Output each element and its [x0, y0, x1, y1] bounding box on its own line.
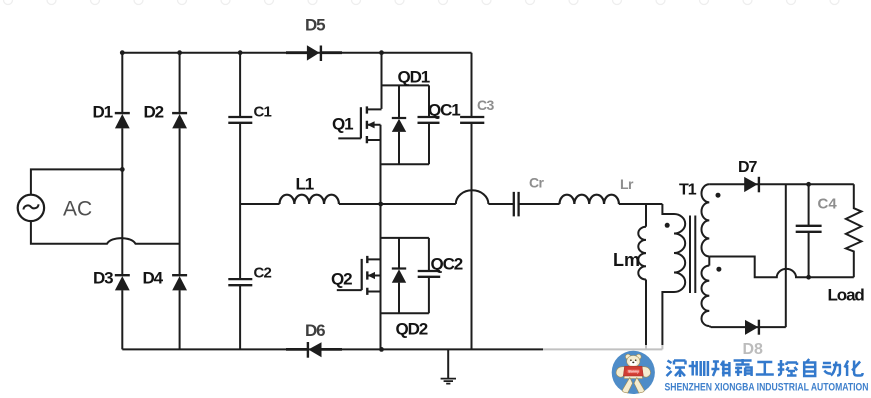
svg-text:Cr: Cr	[529, 175, 545, 191]
bear torso	[624, 367, 643, 379]
svg-text:Bonny: Bonny	[628, 370, 639, 374]
svg-text:D1: D1	[93, 103, 113, 122]
svg-text:Lm: Lm	[613, 250, 640, 270]
body diode QD1 box	[382, 85, 430, 164]
node secondary upper dot	[716, 193, 721, 198]
bear arms	[616, 367, 627, 378]
transformer T1 core	[690, 216, 695, 294]
svg-text:C3: C3	[477, 97, 495, 113]
svg-text:D2: D2	[144, 103, 164, 122]
svg-text:L1: L1	[296, 175, 314, 194]
node C4 top dot	[806, 182, 811, 187]
transformer T1 secondary lower	[702, 257, 711, 328]
transformer T1 primary	[662, 204, 685, 349]
body diode QD2 box	[382, 238, 429, 313]
wire center tap with hop	[709, 257, 854, 278]
bear legs	[622, 378, 632, 393]
ac source V1	[18, 195, 44, 221]
svg-text:C4: C4	[818, 196, 838, 213]
wire D8 cathode vertical	[785, 184, 787, 327]
ground	[441, 349, 456, 383]
svg-text:D5: D5	[305, 16, 325, 35]
transformer T1 secondary upper	[701, 184, 709, 256]
diode QD2	[392, 238, 406, 313]
diode D5	[286, 45, 342, 61]
capacitor C3	[460, 117, 484, 123]
diode D1	[115, 113, 130, 128]
capacitor C2	[228, 279, 252, 285]
svg-text:D6: D6	[305, 321, 325, 340]
svg-text:D7: D7	[738, 159, 758, 176]
wire Cr to Lr	[519, 203, 560, 205]
node half-bridge midpoint dot	[378, 202, 383, 207]
svg-text:T1: T1	[679, 182, 697, 199]
faint watermark remnants top row	[4, 0, 840, 5]
svg-text:C2: C2	[254, 265, 272, 282]
svg-text:C1: C1	[254, 104, 272, 121]
inductor Lm	[638, 204, 646, 349]
node C4 bottom dot	[806, 275, 811, 280]
diode D3	[115, 275, 130, 290]
wire Lr to transformer	[619, 203, 663, 205]
diode D4	[172, 275, 187, 290]
svg-text:D4: D4	[143, 269, 164, 288]
transistor Q2 mosfet	[337, 256, 382, 295]
node junction dots top rail	[120, 50, 384, 55]
wire D1-D3 vertical	[121, 53, 123, 350]
wire top rail	[122, 52, 471, 54]
watermark chinese text	[667, 359, 863, 377]
wire secondary bottom to D8	[711, 326, 786, 328]
svg-text:AC: AC	[63, 198, 92, 221]
svg-text:QD2: QD2	[396, 320, 428, 339]
inductor Lr	[560, 195, 619, 204]
wire bottom rail	[122, 348, 662, 350]
node AC junction dot	[120, 167, 125, 172]
diode QD1	[392, 85, 406, 164]
diode D2	[172, 113, 187, 128]
watermark overlay	[543, 345, 871, 398]
wire D2-D4 vertical	[179, 53, 181, 350]
svg-text:D8: D8	[743, 341, 764, 358]
wire C1-C2 vertical	[239, 53, 241, 350]
svg-text:QC2: QC2	[431, 255, 463, 274]
capacitor C4	[796, 184, 822, 277]
watermark logo circle	[612, 351, 655, 394]
diode D8	[745, 320, 759, 335]
svg-text:Q1: Q1	[332, 115, 353, 134]
svg-text:Q2: Q2	[331, 270, 352, 289]
svg-text:Load: Load	[828, 286, 865, 305]
resistor Load	[846, 184, 862, 277]
node bottom rail dot	[379, 347, 384, 352]
svg-text:Lr: Lr	[620, 176, 634, 192]
svg-text:SHENZHEN XIONGBA INDUSTRIAL AU: SHENZHEN XIONGBA INDUSTRIAL AUTOMATION	[665, 382, 869, 394]
wire middle rail center	[339, 203, 456, 205]
capacitor Cr	[514, 192, 519, 217]
wire AC top lead	[31, 169, 122, 194]
bear head	[627, 356, 640, 368]
wire middle rail left	[240, 203, 279, 205]
wire C3 branch vertical	[471, 53, 473, 350]
inductor L1	[280, 195, 339, 204]
wire AC bottom lead with hop	[31, 221, 180, 244]
capacitor QC2	[418, 271, 441, 277]
wire Q1 branch vertical	[381, 53, 382, 350]
svg-text:QD1: QD1	[398, 68, 430, 87]
wire secondary top rail	[709, 183, 854, 185]
bear shirt	[623, 366, 643, 376]
node primary dot	[665, 223, 670, 228]
diode D7	[744, 177, 759, 193]
wire hop over C3 line	[456, 190, 489, 204]
transistor Q1 mosfet	[338, 106, 381, 143]
svg-text:D3: D3	[93, 269, 113, 288]
bear ears	[625, 354, 630, 359]
svg-text:QC1: QC1	[428, 101, 460, 120]
capacitor C1	[228, 117, 252, 123]
node secondary lower dot	[716, 267, 721, 272]
diode D6	[286, 342, 342, 358]
capacitor QC1	[418, 117, 440, 123]
wire hop to Cr	[488, 203, 513, 205]
